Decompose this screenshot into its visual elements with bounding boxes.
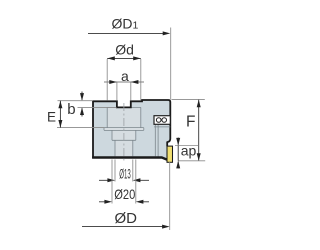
svg-text:Ø20: Ø20 <box>114 186 135 202</box>
dimension ØD1 <box>88 16 171 100</box>
ledge line under window <box>154 126 170 128</box>
body left edge <box>92 101 94 159</box>
svg-text:Ø13: Ø13 <box>119 166 131 181</box>
dimension ØD <box>82 162 170 231</box>
dimension Ø13 <box>99 160 149 183</box>
insert screw window <box>154 116 170 125</box>
dimension ap <box>175 138 205 169</box>
slot fill <box>117 101 131 107</box>
svg-text:Ød: Ød <box>115 41 134 57</box>
dimension b <box>58 92 117 119</box>
flange band fill <box>104 128 144 131</box>
dimension Ød <box>107 41 141 100</box>
svg-text:F: F <box>186 114 195 131</box>
svg-text:ap: ap <box>181 143 197 159</box>
screw circle left <box>156 118 161 123</box>
body top outline <box>93 100 170 146</box>
bore counterbore fill <box>107 107 141 127</box>
dimension a <box>104 68 144 100</box>
svg-text:ØD: ØD <box>115 210 138 227</box>
bore Ø13 fill <box>115 140 133 156</box>
bore Ø20 lines <box>112 130 136 140</box>
centerline <box>123 103 125 163</box>
svg-text:b: b <box>67 101 75 118</box>
counterbore lines <box>107 107 141 127</box>
dimension Ø20 <box>99 160 149 204</box>
bore Ø13 lines <box>115 140 133 156</box>
pocket lines <box>155 125 158 157</box>
cutter body <box>93 100 170 159</box>
dimension E <box>47 101 104 128</box>
dimension F <box>172 100 205 161</box>
bore Ø20 fill <box>112 130 136 140</box>
flange lines <box>104 128 144 131</box>
insert <box>167 146 173 162</box>
body bottom face <box>92 158 167 160</box>
screw circle right <box>162 118 167 123</box>
svg-text:E: E <box>47 110 56 125</box>
